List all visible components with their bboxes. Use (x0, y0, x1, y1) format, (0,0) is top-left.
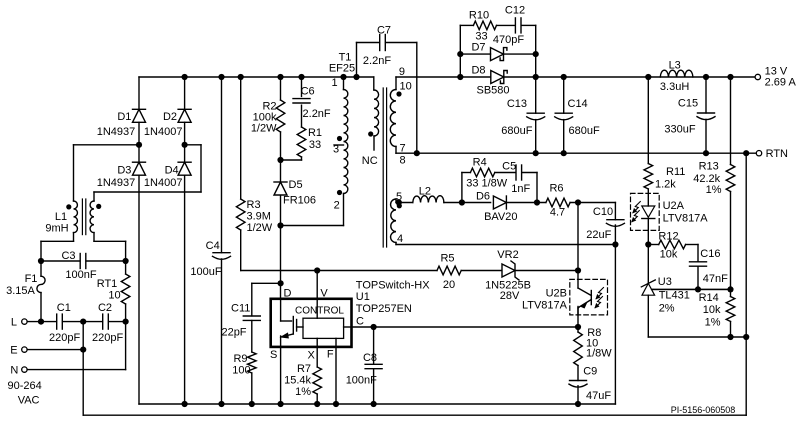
svg-text:2%: 2% (659, 303, 675, 315)
svg-text:C4: C4 (206, 240, 220, 252)
svg-text:R9: R9 (233, 353, 247, 365)
svg-text:F1: F1 (25, 273, 38, 285)
svg-text:R13: R13 (699, 161, 719, 173)
svg-text:EF25: EF25 (329, 63, 355, 75)
svg-text:9: 9 (399, 66, 405, 78)
svg-text:D3: D3 (117, 165, 131, 177)
svg-text:1N4007: 1N4007 (144, 177, 183, 189)
svg-text:15.4k: 15.4k (284, 375, 311, 387)
svg-text:VAC: VAC (18, 394, 40, 406)
svg-text:FR106: FR106 (283, 194, 316, 206)
svg-text:220pF: 220pF (49, 332, 80, 344)
svg-text:2.2nF: 2.2nF (303, 108, 331, 120)
svg-text:42.2k: 42.2k (693, 173, 720, 185)
svg-text:3.15A: 3.15A (6, 285, 35, 297)
svg-text:7: 7 (399, 143, 405, 155)
svg-text:C: C (356, 315, 364, 327)
svg-text:47uF: 47uF (586, 390, 611, 402)
svg-text:C12: C12 (505, 5, 525, 17)
svg-text:9mH: 9mH (45, 223, 68, 235)
svg-text:F: F (327, 348, 334, 360)
svg-text:TOP257EN: TOP257EN (356, 303, 412, 315)
svg-text:L1: L1 (55, 211, 67, 223)
svg-text:D6: D6 (476, 190, 490, 202)
svg-text:S: S (270, 349, 277, 361)
svg-text:1%: 1% (706, 184, 722, 196)
svg-text:LTV817A: LTV817A (522, 300, 568, 312)
svg-text:100nF: 100nF (346, 375, 377, 387)
svg-text:3: 3 (333, 144, 339, 156)
svg-text:680uF: 680uF (569, 125, 600, 137)
svg-text:C7: C7 (377, 25, 391, 37)
svg-text:330uF: 330uF (664, 124, 695, 136)
svg-text:1/2W: 1/2W (247, 222, 273, 234)
svg-text:V: V (320, 288, 328, 300)
svg-text:220pF: 220pF (92, 332, 123, 344)
svg-text:1/2W: 1/2W (251, 123, 277, 135)
svg-text:R14: R14 (699, 292, 719, 304)
svg-text:PI-5156-060508: PI-5156-060508 (671, 405, 736, 415)
svg-text:3.9M: 3.9M (247, 211, 271, 223)
svg-text:470pF: 470pF (493, 34, 524, 46)
svg-text:100nF: 100nF (65, 269, 96, 281)
svg-text:RTN: RTN (766, 148, 788, 160)
svg-text:R5: R5 (440, 253, 454, 265)
svg-text:22pF: 22pF (221, 326, 246, 338)
svg-text:1nF: 1nF (511, 183, 530, 195)
svg-text:R4: R4 (473, 157, 487, 169)
svg-text:1N4937: 1N4937 (97, 177, 136, 189)
svg-text:C10: C10 (593, 206, 613, 218)
svg-text:47nF: 47nF (703, 273, 728, 285)
svg-text:U2A: U2A (663, 200, 685, 212)
svg-text:20: 20 (443, 279, 455, 291)
svg-text:680uF: 680uF (501, 125, 532, 137)
svg-text:C5: C5 (502, 161, 516, 173)
svg-text:CONTROL: CONTROL (295, 305, 344, 316)
svg-text:10: 10 (399, 80, 411, 92)
svg-text:R11: R11 (666, 166, 685, 178)
svg-text:C13: C13 (507, 98, 527, 110)
svg-text:2.69 A: 2.69 A (765, 76, 797, 88)
svg-text:10: 10 (108, 289, 120, 301)
svg-text:100uF: 100uF (190, 266, 221, 278)
svg-text:1: 1 (331, 77, 337, 89)
svg-text:U2B: U2B (546, 288, 567, 300)
svg-text:22uF: 22uF (586, 229, 611, 241)
svg-text:10k: 10k (660, 249, 678, 261)
svg-text:100: 100 (232, 365, 250, 377)
svg-text:R1: R1 (308, 127, 322, 139)
svg-text:C2: C2 (98, 302, 112, 314)
svg-text:1%: 1% (295, 386, 311, 398)
svg-text:D5: D5 (289, 179, 303, 191)
svg-text:C6: C6 (301, 86, 315, 98)
svg-text:C8: C8 (363, 352, 377, 364)
svg-text:R6: R6 (549, 183, 563, 195)
svg-text:SB580: SB580 (476, 85, 509, 97)
svg-text:L: L (11, 316, 17, 328)
svg-text:33: 33 (309, 139, 321, 151)
svg-text:TOPSwitch-HX: TOPSwitch-HX (356, 280, 430, 292)
svg-text:90-264: 90-264 (7, 380, 41, 392)
svg-text:1/8W: 1/8W (586, 347, 612, 359)
svg-text:L3: L3 (669, 60, 681, 72)
svg-text:C1: C1 (57, 302, 71, 314)
svg-text:33 1/8W: 33 1/8W (466, 177, 508, 189)
svg-text:D4: D4 (165, 165, 179, 177)
svg-text:4.7: 4.7 (550, 207, 565, 219)
svg-text:D7: D7 (471, 41, 485, 53)
svg-text:D8: D8 (471, 64, 485, 76)
svg-text:R3: R3 (247, 199, 261, 211)
svg-text:2.2nF: 2.2nF (363, 55, 391, 67)
svg-text:TL431: TL431 (659, 289, 690, 301)
svg-text:5: 5 (396, 191, 402, 203)
svg-text:R7: R7 (297, 363, 311, 375)
svg-text:C15: C15 (678, 98, 698, 110)
svg-text:R12: R12 (658, 231, 678, 243)
svg-text:C3: C3 (61, 250, 75, 262)
svg-text:C14: C14 (568, 98, 588, 110)
svg-text:LTV817A: LTV817A (663, 213, 709, 225)
svg-text:NC: NC (362, 155, 378, 167)
svg-text:C11: C11 (231, 303, 250, 315)
svg-text:D1: D1 (117, 111, 131, 123)
svg-text:3.3uH: 3.3uH (660, 81, 689, 93)
svg-text:10k: 10k (703, 304, 721, 316)
svg-text:8: 8 (399, 154, 405, 166)
svg-text:C16: C16 (700, 248, 720, 260)
svg-text:R10: R10 (469, 10, 489, 22)
svg-text:2: 2 (334, 200, 340, 212)
svg-text:1.2k: 1.2k (655, 178, 676, 190)
svg-text:U3: U3 (658, 276, 672, 288)
svg-text:1N4937: 1N4937 (97, 126, 136, 138)
svg-text:X: X (308, 349, 316, 361)
svg-text:N: N (10, 364, 18, 376)
svg-text:U1: U1 (356, 291, 370, 303)
svg-text:1%: 1% (705, 316, 721, 328)
svg-text:C9: C9 (583, 366, 597, 378)
svg-text:L2: L2 (419, 185, 431, 197)
svg-text:1N4007: 1N4007 (144, 126, 183, 138)
svg-text:E: E (10, 344, 17, 356)
svg-text:28V: 28V (500, 290, 520, 302)
svg-text:VR2: VR2 (497, 249, 518, 261)
svg-text:D: D (284, 288, 292, 300)
svg-text:D2: D2 (163, 111, 177, 123)
svg-text:4: 4 (397, 233, 403, 245)
svg-text:BAV20: BAV20 (484, 211, 517, 223)
